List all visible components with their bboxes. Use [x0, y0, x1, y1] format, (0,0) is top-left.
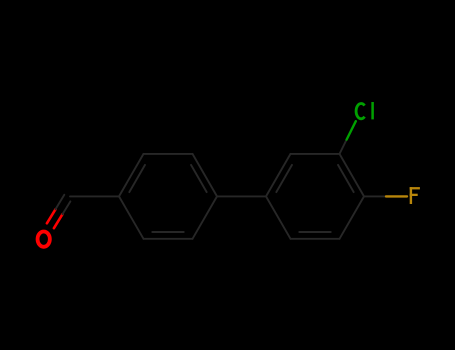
bond C4'-F, dark half near ring: [364, 195, 386, 197]
atom label Cl (chlorine): [356, 102, 373, 119]
carbonyl C=O double bond, red half near O: right line: [54, 214, 63, 228]
bond C4'-F, yellow half near F: [386, 195, 407, 197]
ring1 edge A4-A5: [193, 196, 218, 238]
ring1 edge A3-A4: [193, 154, 218, 197]
ring2 edge C2'-C3': [291, 153, 340, 155]
bond C3'-Cl, green half near Cl: [347, 121, 356, 139]
ring1 edge A6-A1: [119, 196, 144, 238]
ring2 edge C5'-C6' inner double line: [299, 231, 330, 233]
ring2 edge C6'-B1: [266, 196, 291, 238]
ring1 edge A3-A4 inner double line: [191, 165, 207, 192]
ring2 edge C5'-C6': [291, 238, 340, 240]
biphenyl inter-ring bond A4-B1: [217, 195, 266, 197]
carbonyl C=O right line, dark half near C: [63, 201, 71, 214]
ring2 edge C4'-C5': [340, 196, 365, 238]
carbonyl C=O double bond, red half near O: left line: [47, 209, 56, 223]
atom label F (fluorine): [410, 187, 420, 204]
bond C3'-Cl, dark half near ring: [340, 140, 347, 154]
ring2 edge C3'-C4' inner double line: [338, 165, 354, 192]
ring2 edge B1-C2' inner double line: [276, 165, 292, 192]
ring1 edge A1-A2: [119, 154, 144, 197]
atom label O (aldehyde oxygen): [38, 232, 50, 247]
carbonyl C=O left line, dark half near C: [56, 195, 65, 210]
ring1 edge A5-A6 inner double line: [152, 231, 183, 233]
ring1 edge A2-A3: [144, 153, 193, 155]
ring2 edge C3'-C4': [340, 154, 365, 197]
ring1 edge A1-A2 inner double line: [129, 165, 145, 192]
bond carbonyl C to ring1 C4 (A1): [70, 195, 119, 197]
ring2 edge B1-C2': [266, 154, 291, 197]
ring1 edge A5-A6: [144, 238, 193, 240]
